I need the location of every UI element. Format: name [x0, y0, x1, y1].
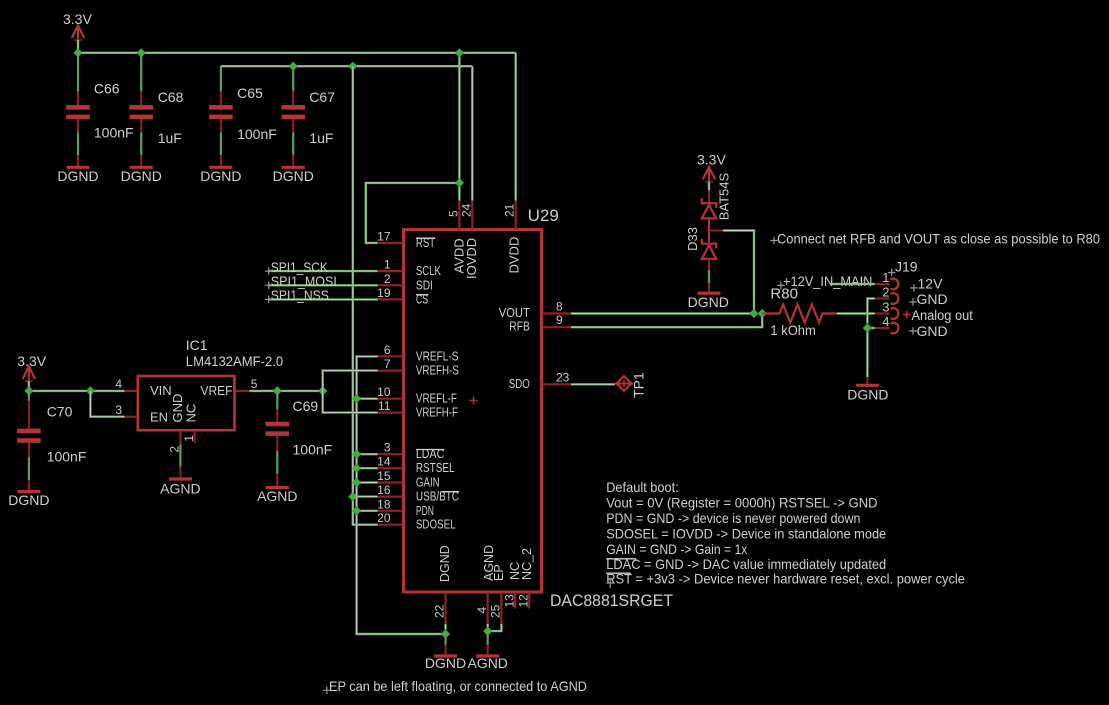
svg-text:5: 5 — [251, 377, 258, 391]
note connect RFB and VOUT — [770, 237, 778, 245]
svg-text:17: 17 — [377, 229, 391, 243]
svg-text:AGND: AGND — [467, 655, 507, 671]
svg-text:NC_2: NC_2 — [520, 548, 534, 580]
junction VOUT/RFB — [758, 309, 767, 318]
wire IOVDD vertical to pin 20 — [353, 66, 378, 525]
svg-text:18: 18 — [377, 497, 391, 511]
wire DVDD drop to pin 21 — [515, 53, 517, 201]
svg-text:24: 24 — [459, 203, 473, 217]
pin 10 VREFL-F of U29 — [378, 398, 403, 400]
pin 20 SDOSEL of U29 — [378, 524, 403, 526]
svg-text:DGND: DGND — [273, 168, 314, 184]
label Analog out — [903, 311, 911, 319]
pin 7 VREFH-S of U29 — [378, 370, 403, 372]
ground DGND under C65 — [209, 119, 232, 167]
svg-text:GND: GND — [917, 291, 948, 307]
svg-text:VREFL-F: VREFL-F — [416, 391, 457, 406]
wire D33 tap to VOUT node — [723, 231, 754, 314]
wire AVDD drop to pin 5 — [458, 53, 460, 201]
label SPI1_NSS — [265, 296, 273, 304]
svg-text:1uF: 1uF — [309, 130, 333, 146]
svg-text:25: 25 — [489, 604, 503, 618]
svg-text:9: 9 — [556, 313, 563, 327]
ground AGND under U29 — [476, 631, 499, 656]
wire VIN net — [29, 390, 125, 392]
ground AGND under C69 — [266, 436, 289, 488]
svg-text:C66: C66 — [94, 81, 120, 97]
ground DGND under C70 — [17, 443, 40, 492]
junction J19 GND — [863, 323, 872, 332]
svg-text:LM4132AMF-2.0: LM4132AMF-2.0 — [186, 353, 284, 369]
svg-text:10: 10 — [377, 385, 391, 399]
ground DGND under J19 — [856, 377, 879, 385]
svg-text:3.3V: 3.3V — [17, 353, 46, 369]
svg-text:EN: EN — [150, 409, 168, 424]
svg-text:DAC8881SRGET: DAC8881SRGET — [550, 591, 673, 610]
svg-text:C65: C65 — [237, 85, 263, 101]
pin 3 LDAC of U29 — [378, 453, 403, 455]
svg-text:3: 3 — [115, 403, 122, 417]
svg-text:7: 7 — [384, 357, 391, 371]
svg-text:DGND: DGND — [8, 492, 49, 508]
svg-text:4: 4 — [115, 377, 122, 391]
svg-text:DGND: DGND — [847, 386, 888, 402]
wire pin 4 AGND down — [487, 624, 489, 627]
svg-text:3: 3 — [882, 300, 889, 315]
wire pin 15 GAIN — [357, 481, 378, 483]
pin 14 RSTSEL of U29 — [378, 467, 403, 469]
svg-text:RSTSEL: RSTSEL — [416, 460, 455, 475]
svg-text:LDAC: LDAC — [416, 446, 444, 461]
pin 5 AVDD of U29 — [458, 201, 460, 230]
junction DGND bottom — [441, 629, 450, 638]
svg-text:1: 1 — [384, 258, 391, 272]
junction IOVDD/pin16 — [348, 492, 357, 501]
capacitor C67 — [281, 66, 305, 119]
svg-text:1uF: 1uF — [158, 130, 182, 146]
wire VOUT net — [571, 312, 754, 314]
wire VREFH-F branch — [323, 391, 378, 413]
svg-text:DGND: DGND — [688, 294, 729, 310]
svg-text:2: 2 — [384, 272, 391, 286]
ground DGND under C66 — [67, 119, 90, 167]
junction AGND bottom — [483, 627, 492, 636]
junction pin14 — [352, 464, 361, 473]
svg-text:1: 1 — [882, 270, 889, 285]
junction VREF branch — [318, 386, 327, 395]
svg-text:PDN = GND -> device is never: PDN = GND -> device is never powered dow… — [606, 510, 860, 526]
svg-text:3: 3 — [384, 441, 391, 455]
wire supply to VIN rail — [28, 381, 30, 391]
svg-text:3.3V: 3.3V — [63, 11, 92, 27]
label GND pin4 — [909, 327, 917, 335]
junction rail/AVDD — [455, 48, 464, 57]
junction VOUT/D33 — [749, 309, 758, 318]
svg-text:23: 23 — [556, 370, 570, 384]
svg-text:DGND: DGND — [121, 168, 162, 184]
note EP floating — [323, 687, 331, 695]
pin 11 VREFH-F of U29 — [378, 412, 403, 414]
wire pin 16 USB/BTC to IOVDD — [353, 495, 378, 497]
svg-text:SDI: SDI — [416, 277, 433, 292]
capacitor C68 — [129, 53, 153, 119]
junction IOVDD/C67 — [289, 62, 298, 71]
svg-text:CS: CS — [416, 291, 429, 306]
power supply +3.3V (top left) — [72, 26, 84, 41]
pin 15 GAIN of U29 — [378, 481, 403, 483]
ground DGND under C68 — [130, 119, 153, 167]
svg-text:DGND: DGND — [200, 168, 241, 184]
svg-text:GND: GND — [917, 323, 948, 339]
pin 13 NC of U29 — [514, 593, 516, 609]
svg-text:SDO: SDO — [509, 376, 530, 391]
svg-text:SCLK: SCLK — [416, 263, 441, 278]
svg-text:DGND: DGND — [57, 168, 98, 184]
pin 24 IOVDD of U29 — [471, 201, 473, 230]
svg-text:C70: C70 — [47, 404, 73, 420]
wire R80 to J19 pin 3 — [837, 312, 875, 314]
svg-text:21: 21 — [503, 203, 517, 217]
svg-text:4: 4 — [475, 607, 489, 614]
wire pin 10 VREFL-F — [357, 398, 378, 400]
junction pin15 — [352, 478, 361, 487]
ground DGND under D33 — [698, 259, 721, 293]
svg-text:100nF: 100nF — [47, 448, 87, 464]
note default boot block — [606, 479, 965, 588]
pin 4 AGND of U29 — [487, 593, 489, 624]
junction pin18 — [352, 506, 361, 515]
svg-text:1 kOhm: 1 kOhm — [770, 322, 815, 338]
junction IOVDD/vertical — [348, 62, 357, 71]
junction VREF/C69 — [273, 386, 282, 395]
op-amp U29 DAC8881 box — [404, 230, 542, 593]
pin 4 VIN of IC1 — [125, 390, 138, 392]
wire 3.3V rail top — [78, 52, 516, 54]
svg-text:TP1: TP1 — [631, 372, 647, 398]
svg-text:12: 12 — [516, 594, 530, 608]
svg-text:EP: EP — [492, 564, 506, 581]
svg-text:VREF: VREF — [201, 383, 233, 398]
pin 2 GND of IC1 — [179, 431, 181, 445]
wire pin 3 LDAC — [357, 453, 378, 455]
wire RFB net — [571, 314, 762, 328]
pin 17 RST of U29 — [378, 242, 403, 244]
svg-text:D33: D33 — [685, 227, 700, 251]
svg-text:1: 1 — [182, 435, 196, 442]
wire J19 pin 2 GND down — [867, 299, 874, 324]
svg-text:VIN: VIN — [150, 383, 172, 398]
wire IOVDD drop to pin 24 — [471, 66, 473, 200]
pin 1 SCLK of U29 — [378, 270, 403, 272]
svg-text:100nF: 100nF — [237, 126, 277, 142]
junction pin3 — [352, 450, 361, 459]
pin 18 PDN of U29 — [378, 510, 403, 512]
svg-text:14: 14 — [377, 455, 391, 469]
label 12V — [910, 284, 918, 292]
svg-text:DGND: DGND — [438, 545, 452, 582]
junction rail/C68 — [137, 48, 146, 57]
power supply +3.3V (left) — [23, 367, 35, 382]
svg-text:2: 2 — [882, 285, 889, 300]
capacitor C66 — [66, 53, 90, 119]
svg-text:20: 20 — [377, 511, 391, 525]
capacitor C69 — [266, 391, 290, 436]
wire supply to D33 — [708, 182, 710, 190]
svg-text:DVDD: DVDD — [507, 237, 522, 274]
svg-text:U29: U29 — [528, 206, 559, 225]
resistor R80 1 kOhm — [762, 305, 837, 323]
ground AGND under IC1 — [169, 445, 192, 479]
svg-text:VREFH-F: VREFH-F — [416, 405, 458, 420]
svg-text:22: 22 — [433, 604, 447, 618]
wire net SPI1_SCK to pin — [269, 270, 378, 272]
part origin cross of U29 — [469, 396, 477, 404]
capacitor C70 — [17, 391, 41, 443]
svg-text:C69: C69 — [293, 398, 319, 414]
svg-text:+12V_IN_MAIN: +12V_IN_MAIN — [783, 273, 872, 289]
svg-text:IC1: IC1 — [186, 337, 208, 353]
pin 12 NC_2 of U29 — [528, 593, 530, 609]
wire VREFH-S branch — [323, 371, 378, 391]
pin 3 EN of IC1 — [125, 416, 138, 418]
pin 2 SDI of U29 — [378, 284, 403, 286]
junction AVDD/RST — [455, 178, 464, 187]
ground DGND under U29 — [434, 634, 457, 656]
svg-text:6: 6 — [384, 343, 391, 357]
svg-text:AGND: AGND — [160, 481, 200, 497]
wire DGND vertical (VREFL, control pins) — [357, 356, 446, 634]
pin 22 DGND of U29 — [444, 593, 446, 624]
wire SDO to TP1 — [571, 383, 615, 385]
net label +12V_IN_MAIN — [777, 282, 785, 290]
svg-text:4: 4 — [882, 314, 889, 329]
pin 25 EP of U29 — [500, 593, 502, 624]
svg-text:PDN: PDN — [416, 503, 434, 518]
svg-text:C67: C67 — [309, 89, 335, 105]
svg-text:100nF: 100nF — [94, 125, 134, 141]
pin 21 DVDD of U29 — [515, 201, 517, 230]
svg-text:NC: NC — [184, 404, 199, 423]
voltage reference IC1 LM4132AMF-2.0 — [138, 376, 235, 430]
svg-text:100nF: 100nF — [293, 441, 333, 457]
svg-text:RFB: RFB — [509, 319, 530, 334]
connector J19 — [875, 279, 899, 334]
wire 3.3V vertical from supply to rail — [77, 40, 79, 53]
wire +12V_IN_MAIN to J19 pin 1 — [831, 283, 875, 285]
ground DGND under C67 — [282, 119, 305, 167]
pin 19 CS of U29 — [378, 298, 403, 300]
pin 23 SDO of U29 — [543, 383, 572, 385]
wire J19 pin 4 GND — [867, 328, 874, 377]
svg-text:Vout = 0V (Register = 0000h) R: Vout = 0V (Register = 0000h) RSTSEL -> G… — [606, 495, 877, 511]
wire pin 18 PDN — [357, 510, 378, 512]
junction VIN/EN — [86, 386, 95, 395]
wire net SPI1_MOSI to pin — [269, 284, 378, 286]
wire VREF net — [249, 390, 322, 392]
label SPI1_MOSI — [265, 282, 273, 290]
pin 6 VREFL-S of U29 — [378, 355, 403, 357]
svg-text:RST: RST — [416, 235, 435, 250]
wire net SPI1_NSS to pin — [269, 298, 378, 300]
wire pin 22 to DGND — [444, 624, 446, 630]
svg-text:15: 15 — [377, 469, 391, 483]
wire IOVDD rail — [221, 65, 472, 67]
svg-text:GAIN: GAIN — [416, 475, 440, 490]
capacitor C65 — [209, 66, 233, 119]
svg-text:Analog out: Analog out — [912, 307, 973, 323]
svg-text:VREFH-S: VREFH-S — [416, 363, 459, 378]
svg-text:J19: J19 — [895, 258, 918, 274]
pin 9 RFB of U29 — [543, 326, 572, 328]
svg-text:11: 11 — [378, 399, 391, 413]
svg-text:SDOSEL: SDOSEL — [416, 517, 456, 532]
junction rail/C66 — [73, 48, 82, 57]
svg-text:SPI1_NSS: SPI1_NSS — [271, 287, 329, 303]
pin 1 NC of IC1 — [194, 431, 196, 443]
junction supply/C70 — [24, 386, 33, 395]
wire RST from AVDD rail to pin 17 — [366, 183, 460, 243]
diode D33 BAT54S dual schottky — [702, 190, 723, 259]
junction pin10 — [352, 394, 361, 403]
svg-text:Connect net RFB and VOUT as cl: Connect net RFB and VOUT as close as pos… — [777, 231, 1100, 247]
test point TP1 — [615, 376, 633, 391]
svg-text:Default boot:: Default boot: — [606, 479, 679, 495]
svg-text:12V: 12V — [918, 275, 944, 291]
svg-text:IOVDD: IOVDD — [464, 238, 479, 279]
svg-text:3.3V: 3.3V — [697, 152, 726, 168]
wire pin 14 RSTSEL — [357, 467, 378, 469]
svg-text:BAT54S: BAT54S — [717, 173, 732, 221]
pin 16 USB/BTC of U29 — [378, 496, 403, 498]
pin 5 VREF of IC1 — [236, 390, 250, 392]
svg-text:SDOSEL = IOVDD -> Device in st: SDOSEL = IOVDD -> Device in standalone m… — [606, 525, 886, 541]
label SPI1_SCK — [265, 267, 273, 275]
svg-text:5: 5 — [446, 210, 460, 217]
wire pin 25 EP to AGND — [488, 624, 502, 631]
svg-text:GAIN = GND -> Gain = 1x: GAIN = GND -> Gain = 1x — [606, 541, 747, 557]
svg-text:USB/BTC: USB/BTC — [416, 489, 459, 504]
wire EN branch — [90, 391, 124, 417]
svg-text:C68: C68 — [158, 89, 184, 105]
svg-text:16: 16 — [377, 483, 391, 497]
svg-text:DGND: DGND — [425, 655, 466, 671]
svg-text:VREFL-S: VREFL-S — [416, 348, 459, 363]
pin 8 VOUT of U29 — [543, 312, 572, 314]
label GND pin2 — [909, 298, 917, 306]
svg-text:EP can be left floating, or co: EP can be left floating, or connected to… — [329, 678, 587, 694]
power supply +3.3V (D33) — [703, 167, 715, 182]
svg-text:13: 13 — [502, 594, 516, 608]
svg-text:8: 8 — [556, 300, 563, 314]
svg-text:RST = +3v3 -> Device never ha: RST = +3v3 -> Device never hardware rese… — [606, 571, 965, 587]
svg-text:19: 19 — [377, 286, 391, 300]
svg-text:AGND: AGND — [257, 488, 297, 504]
